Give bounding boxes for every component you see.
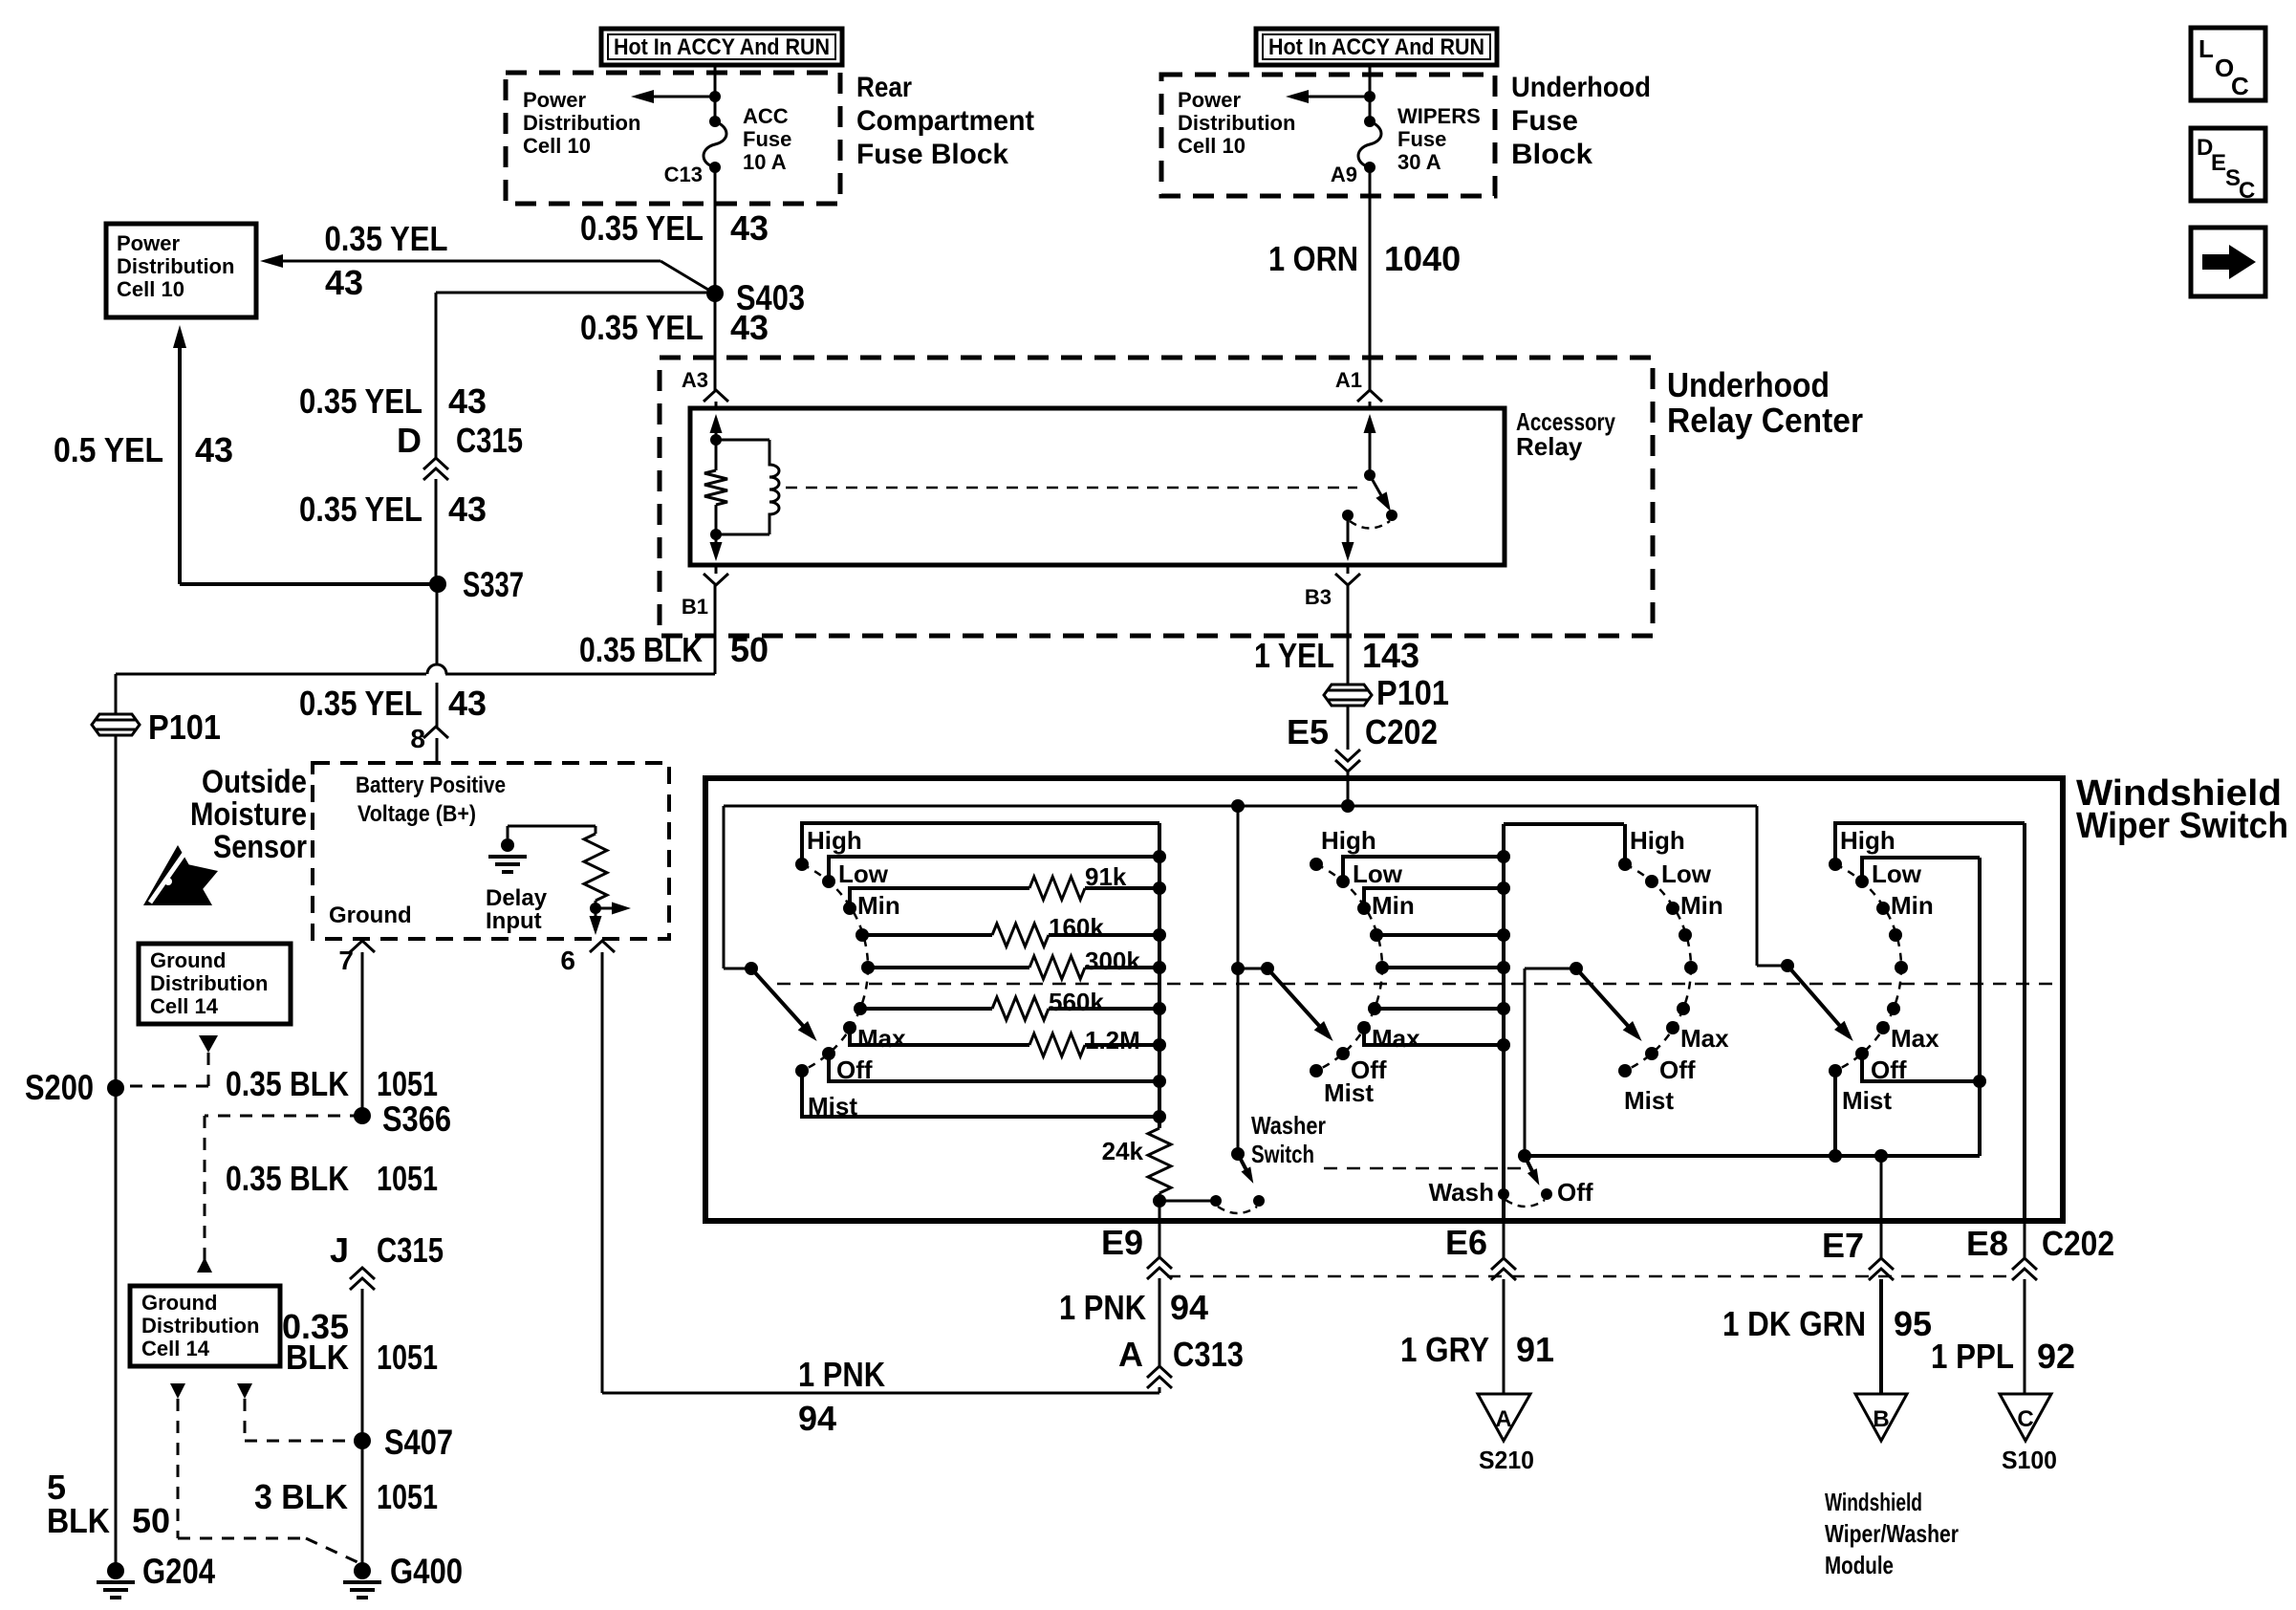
svg-text:Distribution: Distribution: [117, 254, 234, 278]
svg-text:8: 8: [410, 724, 425, 753]
svg-text:Fuse Block: Fuse Block: [856, 139, 1008, 170]
svg-text:Relay Center: Relay Center: [1667, 401, 1863, 440]
svg-text:Fuse: Fuse: [1397, 127, 1446, 151]
svg-text:Battery Positive: Battery Positive: [356, 772, 506, 798]
svg-text:94: 94: [798, 1399, 836, 1438]
svg-text:1 PNK: 1 PNK: [798, 1355, 885, 1394]
svg-text:Compartment: Compartment: [856, 105, 1034, 137]
svg-text:Fuse: Fuse: [1511, 105, 1578, 137]
svg-text:S210: S210: [1479, 1446, 1534, 1474]
svg-text:Block: Block: [1511, 139, 1592, 170]
svg-text:BLK: BLK: [47, 1501, 110, 1540]
svg-text:1051: 1051: [377, 1159, 438, 1198]
svg-text:C: C: [2231, 72, 2249, 100]
svg-text:43: 43: [730, 308, 769, 347]
svg-text:High: High: [1840, 826, 1895, 855]
svg-text:560k: 560k: [1049, 988, 1104, 1016]
svg-text:B3: B3: [1305, 585, 1332, 609]
svg-text:Ground: Ground: [329, 903, 412, 928]
svg-text:1 YEL: 1 YEL: [1254, 636, 1334, 675]
svg-text:0.35 YEL: 0.35 YEL: [299, 490, 422, 529]
svg-text:S100: S100: [2002, 1446, 2057, 1474]
svg-text:High: High: [1630, 826, 1685, 855]
svg-text:3 BLK: 3 BLK: [254, 1477, 348, 1516]
svg-text:S407: S407: [384, 1423, 453, 1462]
svg-text:43: 43: [325, 263, 363, 302]
svg-text:1.2M: 1.2M: [1085, 1026, 1140, 1055]
svg-text:Distribution: Distribution: [523, 111, 640, 135]
svg-text:Wash: Wash: [1429, 1178, 1494, 1207]
svg-text:Ground: Ground: [150, 948, 226, 972]
svg-text:Ground: Ground: [141, 1291, 217, 1315]
svg-text:10 A: 10 A: [743, 150, 787, 174]
svg-text:Distribution: Distribution: [1178, 111, 1295, 135]
svg-text:Low: Low: [838, 859, 889, 888]
svg-text:C315: C315: [377, 1230, 444, 1270]
svg-text:0.35 YEL: 0.35 YEL: [580, 208, 704, 248]
svg-text:A9: A9: [1331, 163, 1357, 186]
svg-text:C202: C202: [1365, 712, 1438, 751]
svg-text:C315: C315: [456, 421, 523, 460]
svg-text:G400: G400: [390, 1552, 463, 1591]
svg-text:94: 94: [1170, 1288, 1208, 1327]
svg-text:Max: Max: [1680, 1024, 1729, 1053]
svg-text:C: C: [2239, 178, 2255, 204]
svg-text:1 GRY: 1 GRY: [1400, 1330, 1489, 1369]
svg-text:1040: 1040: [1384, 239, 1461, 278]
svg-text:A3: A3: [682, 368, 708, 392]
svg-text:E: E: [2211, 150, 2226, 176]
svg-text:Cell 10: Cell 10: [523, 134, 591, 158]
svg-text:160k: 160k: [1049, 913, 1104, 942]
svg-text:C: C: [2017, 1406, 2033, 1432]
svg-text:1051: 1051: [377, 1477, 438, 1516]
svg-text:Wiper Switch: Wiper Switch: [2076, 806, 2288, 846]
svg-text:J: J: [330, 1230, 349, 1270]
svg-text:Min: Min: [1680, 891, 1723, 920]
svg-text:E8: E8: [1966, 1224, 2008, 1263]
svg-text:Sensor: Sensor: [213, 829, 307, 865]
svg-text:Wiper/Washer: Wiper/Washer: [1825, 1519, 1959, 1548]
svg-text:6: 6: [560, 946, 575, 975]
svg-text:Mist: Mist: [1624, 1086, 1674, 1115]
svg-text:0.35 YEL: 0.35 YEL: [580, 308, 704, 347]
svg-text:High: High: [807, 826, 862, 855]
svg-text:Distribution: Distribution: [141, 1314, 259, 1338]
svg-text:Max: Max: [857, 1024, 906, 1053]
svg-text:Min: Min: [1372, 891, 1415, 920]
svg-text:24k: 24k: [1102, 1137, 1144, 1165]
svg-text:BLK: BLK: [286, 1338, 349, 1377]
svg-text:43: 43: [448, 490, 487, 529]
svg-text:Min: Min: [1891, 891, 1934, 920]
svg-text:D: D: [397, 421, 422, 460]
svg-text:1 ORN: 1 ORN: [1268, 239, 1358, 278]
svg-text:Washer: Washer: [1251, 1111, 1326, 1140]
svg-text:Fuse: Fuse: [743, 127, 791, 151]
svg-text:Hot In ACCY And RUN: Hot In ACCY And RUN: [614, 34, 830, 60]
svg-text:Power: Power: [523, 88, 586, 112]
svg-text:High: High: [1321, 826, 1376, 855]
svg-text:30 A: 30 A: [1397, 150, 1441, 174]
svg-text:Cell 14: Cell 14: [141, 1337, 210, 1360]
svg-text:Low: Low: [1661, 859, 1712, 888]
svg-text:B1: B1: [682, 595, 708, 619]
svg-text:Outside: Outside: [202, 764, 307, 800]
svg-text:L: L: [2199, 34, 2214, 63]
svg-text:S200: S200: [25, 1068, 94, 1107]
svg-text:A: A: [1118, 1335, 1143, 1374]
svg-text:50: 50: [132, 1501, 170, 1540]
svg-text:Max: Max: [1891, 1024, 1939, 1053]
svg-text:0.35 BLK: 0.35 BLK: [226, 1159, 349, 1198]
svg-text:C202: C202: [2042, 1224, 2114, 1263]
svg-text:Off: Off: [1659, 1055, 1696, 1084]
svg-text:B: B: [1873, 1406, 1889, 1432]
svg-text:Windshield: Windshield: [1825, 1488, 1922, 1516]
svg-text:Switch: Switch: [1251, 1140, 1314, 1168]
svg-text:Hot In ACCY And RUN: Hot In ACCY And RUN: [1268, 34, 1484, 60]
svg-text:Underhood: Underhood: [1667, 365, 1830, 404]
svg-text:Delay: Delay: [486, 885, 548, 911]
svg-text:Power: Power: [1178, 88, 1241, 112]
svg-text:C13: C13: [664, 163, 703, 186]
svg-text:Cell 10: Cell 10: [117, 277, 184, 301]
svg-text:Mist: Mist: [1842, 1086, 1892, 1115]
svg-text:Min: Min: [857, 891, 900, 920]
svg-text:Power: Power: [117, 231, 180, 255]
svg-text:0.5 YEL: 0.5 YEL: [54, 430, 163, 469]
svg-text:ACC: ACC: [743, 104, 789, 128]
svg-text:0.35 BLK: 0.35 BLK: [226, 1064, 349, 1103]
svg-text:0.35 YEL: 0.35 YEL: [299, 381, 422, 421]
svg-text:E7: E7: [1822, 1226, 1864, 1265]
svg-text:Distribution: Distribution: [150, 971, 268, 995]
svg-text:1 DK GRN: 1 DK GRN: [1722, 1304, 1866, 1343]
svg-text:Input: Input: [486, 908, 542, 934]
svg-text:S366: S366: [382, 1099, 451, 1139]
svg-text:Max: Max: [1372, 1024, 1420, 1053]
svg-text:Underhood: Underhood: [1511, 72, 1651, 103]
svg-text:1 PPL: 1 PPL: [1931, 1337, 2014, 1376]
svg-text:E6: E6: [1445, 1223, 1487, 1262]
svg-text:WIPERS: WIPERS: [1397, 104, 1481, 128]
svg-text:E9: E9: [1101, 1223, 1143, 1262]
svg-text:Moisture: Moisture: [190, 796, 307, 833]
svg-text:Rear: Rear: [856, 72, 912, 103]
svg-text:43: 43: [195, 430, 233, 469]
svg-text:P101: P101: [148, 707, 221, 747]
svg-text:91: 91: [1516, 1330, 1554, 1369]
svg-text:1051: 1051: [377, 1064, 438, 1103]
svg-text:0.35 YEL: 0.35 YEL: [299, 684, 422, 723]
svg-text:Voltage (B+): Voltage (B+): [357, 801, 476, 827]
svg-text:95: 95: [1894, 1304, 1932, 1343]
svg-text:Off: Off: [1557, 1178, 1593, 1207]
svg-text:Mist: Mist: [1324, 1078, 1374, 1107]
svg-text:Cell 10: Cell 10: [1178, 134, 1245, 158]
svg-text:300k: 300k: [1085, 946, 1140, 975]
svg-text:91k: 91k: [1085, 862, 1127, 891]
svg-text:Cell 14: Cell 14: [150, 994, 219, 1018]
svg-text:1051: 1051: [377, 1338, 438, 1377]
svg-text:G204: G204: [142, 1552, 215, 1591]
svg-text:143: 143: [1362, 636, 1419, 675]
svg-text:43: 43: [448, 684, 487, 723]
svg-text:0.35 YEL: 0.35 YEL: [325, 219, 448, 258]
svg-text:C313: C313: [1173, 1335, 1244, 1374]
svg-text:1 PNK: 1 PNK: [1059, 1288, 1146, 1327]
svg-text:43: 43: [730, 208, 769, 248]
svg-text:Low: Low: [1872, 859, 1922, 888]
svg-text:S337: S337: [463, 565, 524, 604]
svg-text:92: 92: [2037, 1337, 2075, 1376]
svg-text:E5: E5: [1287, 712, 1329, 751]
svg-text:P101: P101: [1376, 673, 1449, 712]
svg-text:A1: A1: [1335, 368, 1362, 392]
svg-text:Relay: Relay: [1516, 432, 1583, 461]
svg-text:43: 43: [448, 381, 487, 421]
svg-text:A: A: [1495, 1406, 1511, 1432]
svg-text:0.35 BLK: 0.35 BLK: [579, 630, 703, 669]
svg-text:Low: Low: [1353, 859, 1403, 888]
svg-text:Module: Module: [1825, 1551, 1894, 1579]
